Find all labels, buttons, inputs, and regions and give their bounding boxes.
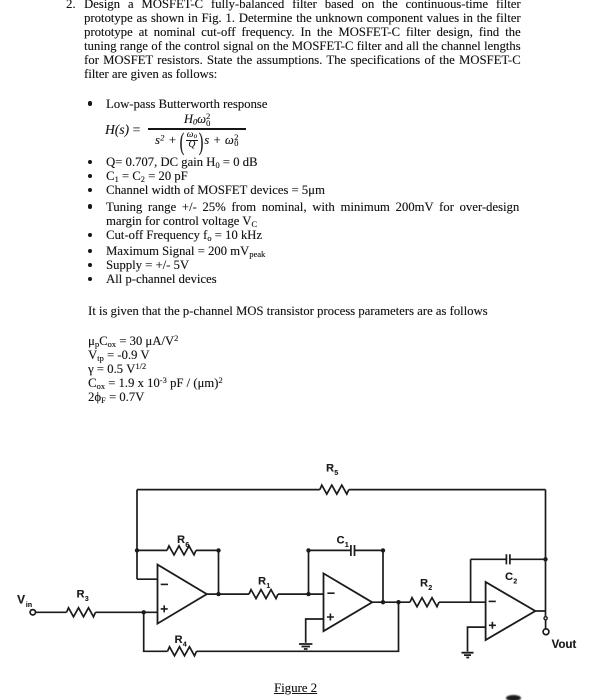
svg-text:R: R <box>420 578 428 590</box>
input terminal Vin <box>17 593 36 616</box>
wire top feedback: left vertical top corner to R5 <box>137 489 320 491</box>
wire U3 output down to Vout terminal <box>545 611 547 629</box>
svg-text:R: R <box>77 589 85 601</box>
wire right vertical down to U3 output <box>545 490 547 611</box>
svg-text:2: 2 <box>428 585 432 592</box>
node junction C1 top right <box>381 548 385 552</box>
wire C2 top left lead <box>471 558 507 560</box>
wire C1 left vertical <box>308 550 310 594</box>
node junction C1 on U2 output <box>381 600 385 604</box>
wire R6 right lead <box>196 549 219 551</box>
svg-text:5: 5 <box>334 470 338 477</box>
resistor R5 <box>320 463 349 495</box>
parameter list <box>88 334 178 349</box>
node junction R4 on U2 output <box>396 600 400 604</box>
ground (U2 + input) <box>299 644 312 649</box>
wire C1 right lead <box>355 549 384 551</box>
capacitor C1 <box>337 535 355 557</box>
resistor R3 <box>67 589 96 617</box>
wire Vin to R3 <box>36 611 67 613</box>
node junction R6 on U1 output <box>216 592 220 596</box>
node junction R6 left <box>135 548 139 552</box>
svg-text:3: 3 <box>85 596 89 603</box>
svg-text:in: in <box>26 602 32 609</box>
ground (U3 + input) <box>462 653 474 658</box>
node junction R6 right top <box>216 548 220 552</box>
resistor R4 <box>168 634 197 656</box>
wire C1 top left lead <box>309 549 351 551</box>
node junction C2 on right vertical <box>543 557 547 561</box>
node junction Vin/R4 branch <box>142 610 146 614</box>
bullet list <box>88 97 267 112</box>
figure caption <box>274 681 317 696</box>
wire R6 down to U1 output <box>218 550 220 594</box>
wire R2 to op-amp U3 - input <box>439 601 486 603</box>
svg-text:C: C <box>505 571 513 583</box>
op-amp U1 <box>158 565 207 624</box>
resistor R2 <box>410 578 439 607</box>
svg-text:R: R <box>258 576 266 588</box>
wire U2 + input to ground <box>306 619 324 643</box>
paragraph: process parameters intro <box>88 304 488 319</box>
wire R6 left lead <box>137 549 167 551</box>
wire U3 output <box>535 610 545 612</box>
svg-text:R: R <box>177 534 185 546</box>
svg-text:1: 1 <box>345 542 349 549</box>
node junction C1 top left <box>306 548 310 552</box>
wire R1 to op-amp U2 - input <box>278 593 324 595</box>
resistor R1 <box>249 576 278 599</box>
svg-text:V: V <box>17 593 25 607</box>
svg-text:2: 2 <box>513 579 517 586</box>
formula H(s) <box>105 122 141 138</box>
wire R5 to right vertical <box>349 489 546 491</box>
svg-text:C: C <box>337 535 345 547</box>
svg-text:6: 6 <box>185 542 189 549</box>
wire R3 to op-amp U1 + input <box>96 611 158 613</box>
wire U2 output to R2 <box>372 601 410 603</box>
wire U1 - input <box>137 578 158 580</box>
wire feedback vertical left <box>136 490 138 580</box>
wire C1 right vertical to U2 output <box>382 550 384 602</box>
small circle on Vout stub <box>544 617 547 620</box>
svg-text:R: R <box>175 634 183 646</box>
wire C2 right lead <box>510 558 546 560</box>
paragraph: problem statement item 2 <box>66 0 76 12</box>
output terminal Vout <box>543 629 576 651</box>
wire C2 left vertical <box>470 559 472 602</box>
node junction C1 left <box>306 592 310 596</box>
svg-text:Vout: Vout <box>552 639 577 651</box>
op-amp U2 <box>324 573 373 631</box>
wire junction down to R4 row <box>144 612 168 651</box>
stray ink fragment bottom right <box>506 695 521 700</box>
wire U1 output to R1 <box>207 593 249 595</box>
svg-text:R: R <box>326 463 334 475</box>
resistor R6 <box>167 534 196 555</box>
capacitor C2 <box>505 554 517 585</box>
wire U3 + input to ground <box>468 627 486 651</box>
wire R4 to op-amp U2 output <box>197 602 399 651</box>
svg-text:4: 4 <box>183 642 187 649</box>
op-amp U3 <box>486 582 536 640</box>
svg-text:1: 1 <box>266 583 270 590</box>
